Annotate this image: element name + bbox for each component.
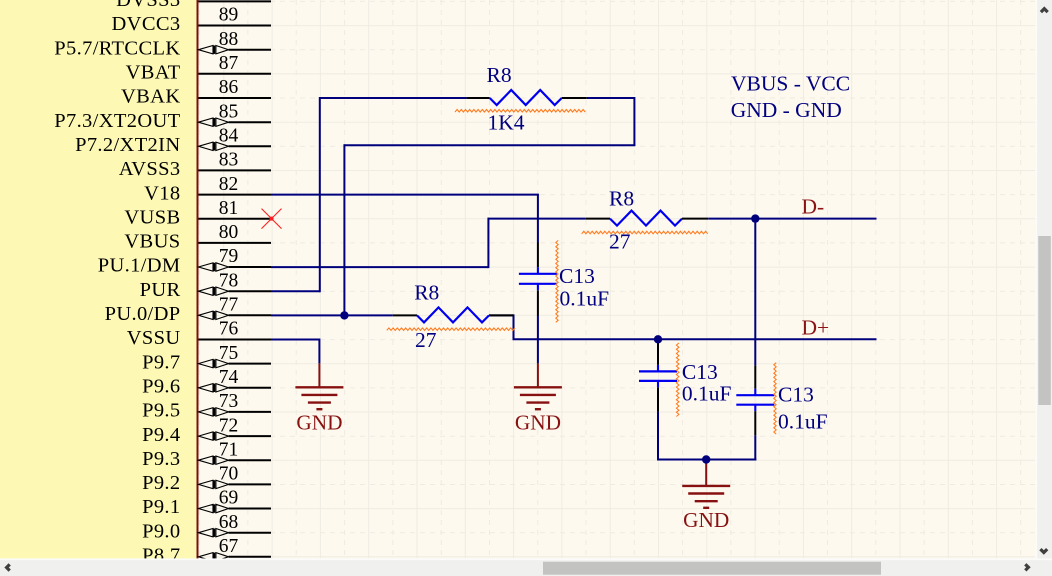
svg-text:GND: GND bbox=[683, 508, 729, 532]
svg-text:74: 74 bbox=[219, 367, 239, 388]
no-ERC marker on VUSB pin bbox=[262, 209, 282, 229]
IC U1 body bbox=[0, 0, 198, 571]
pin 69 P9.1 bbox=[142, 488, 271, 519]
wire C13a bottom to GND bbox=[537, 316, 539, 364]
svg-text:79: 79 bbox=[219, 246, 239, 267]
svg-text:77: 77 bbox=[219, 295, 239, 316]
net label D- bbox=[802, 195, 825, 219]
pin 90 DVSS3 bbox=[116, 0, 271, 11]
pin 84 P7.2/XT2IN bbox=[75, 126, 271, 157]
pin 77 PU.0/DP bbox=[105, 295, 271, 326]
text note VBUS - VCC / GND - GND bbox=[731, 72, 850, 122]
svg-text:P7.3/XT2OUT: P7.3/XT2OUT bbox=[54, 110, 180, 132]
pin 68 P9.0 bbox=[142, 512, 271, 543]
svg-text:72: 72 bbox=[219, 415, 239, 436]
svg-text:R8: R8 bbox=[487, 63, 512, 87]
svg-text:84: 84 bbox=[219, 126, 239, 147]
svg-text:0.1uF: 0.1uF bbox=[682, 382, 732, 406]
svg-text:0.1uF: 0.1uF bbox=[560, 287, 610, 311]
junction GND bbox=[702, 455, 710, 463]
svg-text:DVSS3: DVSS3 bbox=[116, 0, 180, 11]
pin 70 P9.2 bbox=[142, 464, 271, 495]
svg-text:PU.0/DP: PU.0/DP bbox=[105, 303, 181, 325]
svg-text:R8: R8 bbox=[414, 281, 439, 305]
error squiggle under R8 27 D+ bbox=[387, 328, 515, 331]
svg-text:C13: C13 bbox=[778, 383, 814, 407]
wire PU.0/DP pin77 to R8 27 bbox=[271, 314, 393, 316]
svg-text:89: 89 bbox=[219, 5, 239, 26]
wire D- junction down to C13c bbox=[754, 219, 756, 366]
capacitor C13 on D- bbox=[736, 365, 827, 435]
svg-text:GND - GND: GND - GND bbox=[731, 98, 842, 122]
svg-text:90: 90 bbox=[219, 0, 239, 2]
svg-text:1K4: 1K4 bbox=[488, 111, 525, 135]
svg-text:82: 82 bbox=[219, 174, 239, 195]
svg-text:DVCC3: DVCC3 bbox=[112, 13, 181, 35]
vertical scrollbar bbox=[1035, 0, 1052, 576]
svg-text:D-: D- bbox=[802, 195, 825, 219]
pin 72 P9.4 bbox=[142, 415, 271, 446]
svg-text:86: 86 bbox=[219, 77, 239, 98]
pin 86 VBAK bbox=[121, 77, 271, 108]
wire PU.1/DM pin79 to D- bbox=[271, 218, 586, 269]
svg-text:GND: GND bbox=[296, 410, 342, 434]
svg-text:88: 88 bbox=[219, 29, 239, 50]
svg-text:P9.7: P9.7 bbox=[142, 351, 180, 373]
pin 81 VUSB bbox=[124, 198, 271, 229]
svg-text:67: 67 bbox=[219, 536, 239, 557]
pin 87 VBAT bbox=[126, 53, 271, 84]
resistor R8 27 on D+ bbox=[393, 281, 514, 352]
junction D+ bbox=[654, 335, 662, 343]
svg-text:83: 83 bbox=[219, 150, 239, 171]
svg-text:87: 87 bbox=[219, 53, 239, 74]
pin 85 P7.3/XT2OUT bbox=[54, 101, 271, 131]
svg-text:80: 80 bbox=[219, 222, 239, 243]
pin 82 V18 bbox=[144, 174, 271, 205]
pin 83 AVSS3 bbox=[119, 150, 271, 181]
pin 80 VBUS bbox=[124, 222, 271, 253]
svg-text:27: 27 bbox=[415, 328, 437, 352]
capacitor C13 on D+ bbox=[639, 341, 732, 411]
svg-text:AVSS3: AVSS3 bbox=[119, 158, 181, 180]
ground GND under C13b/C13c bbox=[682, 462, 730, 532]
svg-text:71: 71 bbox=[219, 439, 239, 460]
svg-text:R8: R8 bbox=[609, 186, 634, 210]
svg-text:C13: C13 bbox=[682, 360, 718, 384]
resistor R8 27 on D- bbox=[586, 186, 708, 253]
svg-text:P7.2/XT2IN: P7.2/XT2IN bbox=[75, 134, 180, 156]
ground GND under C13a bbox=[514, 363, 562, 434]
pin 71 P9.3 bbox=[142, 439, 271, 470]
svg-text:76: 76 bbox=[219, 319, 239, 340]
svg-text:P9.1: P9.1 bbox=[142, 496, 180, 518]
error squiggle beside C13a bbox=[556, 240, 558, 322]
pin 74 P9.6 bbox=[142, 367, 271, 398]
svg-text:V18: V18 bbox=[144, 182, 180, 204]
pin 78 PUR bbox=[140, 270, 271, 301]
svg-text:P9.6: P9.6 bbox=[142, 376, 180, 398]
error squiggle under R8 1K4 bbox=[455, 110, 585, 113]
wire R8 1K4 right loop down to PU.0/DP junction bbox=[344, 97, 635, 315]
error squiggle under R8 27 D- bbox=[582, 231, 708, 234]
wire R8 27 to D+ bbox=[489, 314, 877, 339]
pin 75 P9.7 bbox=[142, 343, 271, 374]
svg-text:P9.4: P9.4 bbox=[142, 424, 180, 446]
svg-text:0.1uF: 0.1uF bbox=[778, 410, 828, 434]
wire C13b C13c bottoms to GND bbox=[657, 412, 756, 461]
svg-text:85: 85 bbox=[219, 101, 239, 122]
svg-text:PUR: PUR bbox=[140, 279, 181, 301]
svg-text:C13: C13 bbox=[559, 264, 595, 288]
svg-text:P9.5: P9.5 bbox=[142, 400, 180, 422]
junction D- bbox=[751, 214, 759, 222]
svg-text:78: 78 bbox=[219, 270, 239, 291]
svg-text:VBAK: VBAK bbox=[121, 86, 181, 108]
pin 79 PU.1/DM bbox=[98, 246, 271, 277]
svg-text:69: 69 bbox=[219, 488, 239, 509]
svg-text:68: 68 bbox=[219, 512, 239, 533]
svg-text:P9.0: P9.0 bbox=[142, 520, 180, 542]
pin 88 P5.7/RTCCLK bbox=[54, 29, 271, 60]
pin 67 P8.7 bbox=[142, 536, 271, 567]
wire V18 pin82 to C13a bbox=[271, 195, 539, 243]
pin 76 VSSU bbox=[127, 319, 271, 350]
capacitor C13 on V18 bbox=[519, 243, 609, 316]
wire D+ junction down to C13b bbox=[657, 339, 659, 341]
svg-text:75: 75 bbox=[219, 343, 239, 364]
error squiggle beside C13b bbox=[676, 343, 679, 417]
net label D+ bbox=[802, 316, 830, 340]
svg-text:VBAT: VBAT bbox=[126, 62, 181, 84]
pin 89 DVCC3 bbox=[112, 5, 271, 36]
wire D- right segment bbox=[708, 218, 876, 220]
svg-text:VBUS - VCC: VBUS - VCC bbox=[731, 72, 850, 96]
svg-text:VBUS: VBUS bbox=[124, 231, 180, 253]
svg-text:P9.3: P9.3 bbox=[142, 448, 180, 470]
wire VSSU pin76 to GND bbox=[271, 339, 319, 364]
svg-text:D+: D+ bbox=[802, 316, 830, 340]
svg-text:PU.1/DM: PU.1/DM bbox=[98, 255, 181, 277]
svg-text:P5.7/RTCCLK: P5.7/RTCCLK bbox=[54, 37, 180, 59]
error squiggle beside C13c bbox=[774, 363, 776, 434]
svg-text:VUSB: VUSB bbox=[124, 206, 180, 228]
pin 73 P9.5 bbox=[142, 391, 271, 422]
svg-text:81: 81 bbox=[219, 198, 239, 219]
svg-text:P9.2: P9.2 bbox=[142, 472, 180, 494]
svg-text:VSSU: VSSU bbox=[127, 327, 181, 349]
wire PUR pin78 up to R8 1K4 bbox=[271, 97, 467, 292]
svg-text:GND: GND bbox=[515, 410, 561, 434]
svg-text:70: 70 bbox=[219, 464, 239, 485]
resistor R8 1K4 bbox=[467, 63, 587, 135]
junction PU.0/DP bbox=[340, 311, 348, 319]
svg-text:73: 73 bbox=[219, 391, 239, 412]
ground GND under VSSU bbox=[295, 363, 343, 434]
horizontal scrollbar bbox=[0, 558, 1052, 576]
